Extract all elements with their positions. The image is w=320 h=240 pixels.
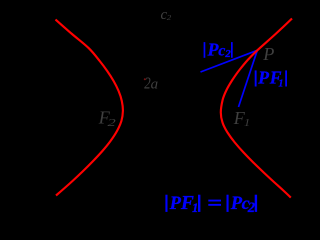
svg-text:2: 2 xyxy=(108,117,116,129)
svg-text:1: 1 xyxy=(244,116,250,129)
svg-text:P: P xyxy=(262,44,274,64)
svg-text:P: P xyxy=(169,194,182,214)
svg-text:2: 2 xyxy=(144,75,151,93)
svg-text:P: P xyxy=(257,68,269,88)
svg-text:1: 1 xyxy=(278,79,283,90)
svg-text:a: a xyxy=(151,77,159,93)
svg-text:1: 1 xyxy=(192,200,199,215)
svg-text:2: 2 xyxy=(224,48,231,60)
svg-text:2: 2 xyxy=(247,200,255,216)
svg-text:2: 2 xyxy=(167,14,171,22)
